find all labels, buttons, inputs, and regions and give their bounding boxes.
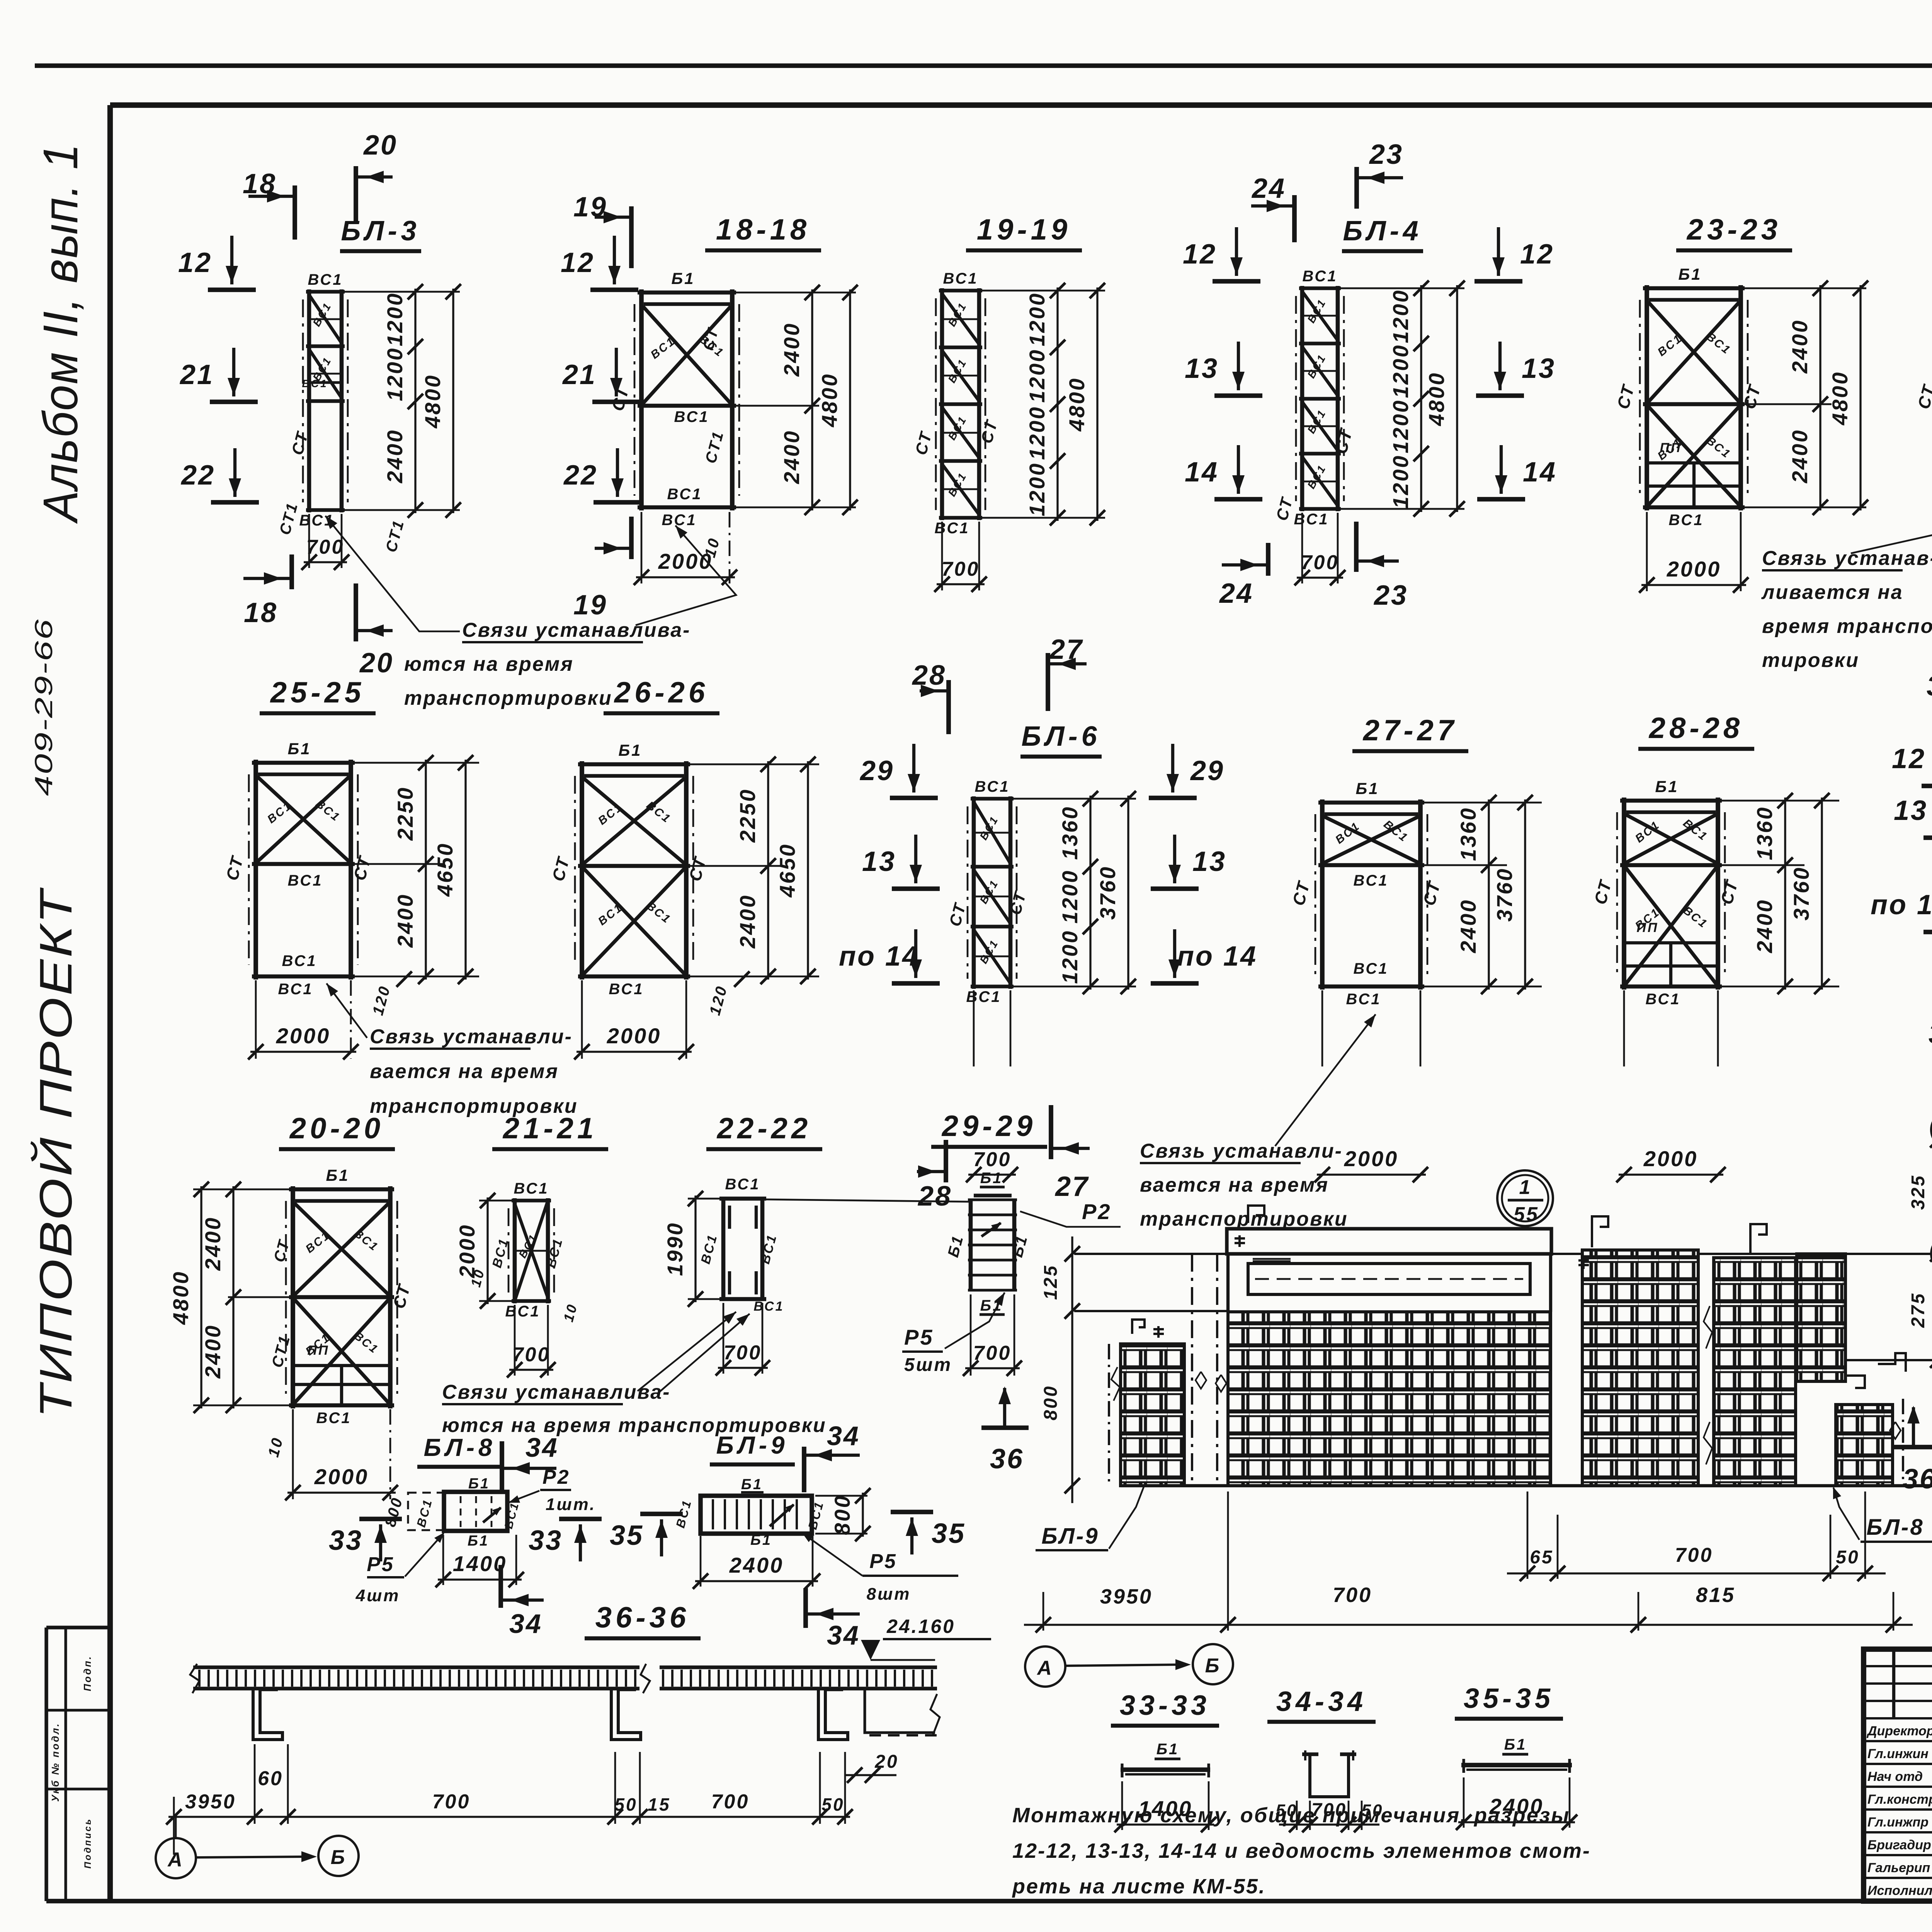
БЛ-8 note Р5 4шт [355, 1532, 444, 1605]
33-33 flange [1121, 1741, 1210, 1777]
БЛ-3 section mark 21 left [179, 348, 258, 402]
svg-text:СТ: СТ [946, 900, 969, 928]
БЛ-8 mark 34 top [502, 1432, 559, 1491]
svg-text:4800: 4800 [817, 373, 842, 428]
svg-text:20: 20 [359, 648, 394, 679]
svg-text:ВС1: ВС1 [1681, 904, 1710, 931]
svg-text:ВС1: ВС1 [414, 1497, 435, 1529]
block БЛ-6 truss column [946, 778, 1030, 1005]
block section 26-26 [549, 741, 710, 998]
svg-text:ВС1: ВС1 [1353, 960, 1388, 977]
svg-text:Связи устанавлива-: Связи устанавлива- [442, 1381, 670, 1403]
block БЛ-4 truss column [1272, 268, 1356, 528]
svg-text:325: 325 [1908, 1174, 1929, 1210]
28-28 bottom dim 2000 [1616, 990, 1726, 1182]
elevation axis А circle [1025, 1646, 1065, 1687]
БЛ-6 mark 29 left [859, 744, 938, 798]
svg-text:800: 800 [1041, 1385, 1061, 1420]
БЛ-4 mark 14 left [1185, 445, 1262, 499]
25-25 dim chains [355, 755, 479, 984]
svg-text:БЛ-6: БЛ-6 [1021, 721, 1100, 752]
svg-text:13: 13 [1522, 353, 1556, 384]
18-18 corner mark 19 bottom [573, 517, 631, 621]
svg-text:13: 13 [1894, 795, 1928, 826]
svg-text:СТ: СТ [223, 854, 247, 883]
19-19 dim chain 4800 [1065, 283, 1105, 526]
svg-text:ВС1: ВС1 [278, 981, 313, 998]
title 34-34 [1267, 1686, 1376, 1722]
elevation right stepped panel [1797, 1254, 1906, 1388]
svg-text:2400: 2400 [201, 1216, 225, 1271]
19-19 bottom dim 700 [934, 522, 987, 592]
БЛ-3 corner mark 18 top [243, 168, 295, 240]
svg-text:1200: 1200 [383, 292, 407, 347]
svg-text:1200: 1200 [1025, 406, 1049, 460]
svg-text:4650: 4650 [775, 843, 799, 898]
svg-text:Бригадир: Бригадир [1867, 1838, 1931, 1852]
svg-text:1990: 1990 [663, 1222, 687, 1276]
БЛ-7 mark 13 left [1894, 784, 1932, 838]
20-20 bottom dim 2000 [265, 1409, 398, 1500]
svg-text:22-22: 22-22 [716, 1112, 811, 1145]
svg-text:2250: 2250 [735, 788, 760, 843]
svg-text:ВС1: ВС1 [934, 520, 969, 537]
svg-text:20: 20 [874, 1752, 898, 1772]
svg-text:28: 28 [917, 1181, 952, 1212]
БЛ-3 section mark 21 right [562, 348, 640, 402]
svg-text:Подпись: Подпись [83, 1818, 93, 1869]
svg-text:СТ: СТ [350, 854, 375, 883]
svg-text:СТ: СТ [1914, 382, 1932, 411]
svg-text:700: 700 [1675, 1544, 1713, 1566]
svg-text:Б1: Б1 [468, 1533, 489, 1549]
27-27 bottom dim 2000 [1315, 990, 1428, 1182]
svg-text:Б1: Б1 [618, 741, 642, 759]
БЛ-7 mark po14 left [1871, 878, 1932, 932]
svg-text:СТ: СТ [1420, 879, 1444, 908]
svg-text:2400: 2400 [779, 430, 804, 485]
block БЛ-3 truss column [276, 271, 408, 554]
svg-text:Б1: Б1 [1355, 779, 1379, 798]
svg-text:50: 50 [821, 1794, 844, 1815]
svg-text:120: 120 [706, 983, 731, 1017]
svg-text:1200: 1200 [1388, 289, 1413, 344]
svg-text:12: 12 [178, 247, 212, 278]
svg-text:125: 125 [1041, 1264, 1061, 1300]
elevation main panel frame [1227, 1229, 1551, 1486]
svg-text:33-33: 33-33 [1120, 1690, 1210, 1721]
svg-text:2400: 2400 [1456, 899, 1480, 954]
svg-text:23: 23 [1373, 580, 1408, 611]
svg-text:реть на листе КМ-55.: реть на листе КМ-55. [1012, 1875, 1266, 1898]
36-36 channel 2 [611, 1689, 641, 1740]
title 18-18 [705, 213, 821, 250]
svg-text:12: 12 [561, 247, 595, 278]
svg-text:18-18: 18-18 [716, 213, 810, 246]
svg-text:СТ: СТ [549, 854, 573, 883]
svg-text:4800: 4800 [168, 1270, 193, 1325]
svg-text:4шт: 4шт [355, 1586, 400, 1605]
35-35 flange [1461, 1736, 1572, 1773]
svg-text:5шт: 5шт [904, 1355, 952, 1375]
БЛ-4 mark 14 right [1477, 445, 1557, 499]
block section 19-19 [912, 270, 1001, 537]
svg-text:22: 22 [180, 460, 215, 491]
block section 23-23 [1614, 265, 1765, 529]
block section 25-25 [223, 740, 375, 998]
note svyazi 21-22 [442, 1312, 827, 1437]
svg-text:транспортировки: транспортировки [1140, 1208, 1348, 1230]
svg-text:ВС1: ВС1 [1346, 991, 1381, 1008]
БЛ-6 corner mark 28 bottom [917, 1140, 952, 1212]
svg-text:21: 21 [562, 359, 597, 390]
18-18 dim chain 2400/2400 [736, 285, 856, 515]
20-20 dim chains left [168, 1182, 289, 1413]
svg-text:36-36: 36-36 [595, 1601, 690, 1634]
34-34 channel profile [1302, 1750, 1356, 1797]
svg-text:31: 31 [1927, 671, 1932, 702]
svg-text:2400: 2400 [201, 1324, 225, 1379]
block section 24-24 [1914, 265, 1932, 529]
БЛ-9 note Р5 8шт [802, 1533, 958, 1604]
svg-text:вается на время: вается на время [1140, 1174, 1329, 1196]
svg-text:35: 35 [932, 1518, 966, 1549]
svg-text:СТ: СТ [608, 384, 633, 413]
elevation dashed column [1192, 1254, 1217, 1486]
svg-text:29: 29 [1190, 755, 1225, 786]
svg-text:1200: 1200 [1025, 349, 1049, 403]
БЛ-3 bottom dim 700 [301, 514, 349, 570]
title 19-19 [966, 213, 1082, 250]
29-29 link line [764, 1199, 969, 1202]
svg-text:36: 36 [1903, 1464, 1932, 1495]
svg-text:4800: 4800 [420, 374, 445, 429]
svg-text:2400: 2400 [729, 1553, 784, 1577]
svg-text:29: 29 [859, 755, 894, 786]
svg-text:700: 700 [724, 1342, 762, 1364]
svg-text:ВС1: ВС1 [514, 1180, 549, 1197]
svg-text:ВС1: ВС1 [674, 408, 709, 425]
БЛ-3 extension lines [345, 292, 460, 510]
БЛ-6 corner mark 27 top [1048, 634, 1087, 711]
29-29 note P5 5sht [902, 1293, 1005, 1375]
svg-text:ливается на: ливается на [1761, 581, 1903, 604]
svg-text:Б1: Б1 [1655, 777, 1679, 796]
svg-text:2250: 2250 [393, 786, 417, 841]
svg-text:18: 18 [243, 168, 277, 199]
svg-text:ВС1: ВС1 [1353, 872, 1388, 889]
block БЛ-8 section 29-29 column [945, 1170, 1031, 1315]
27-27 dim chains [1424, 795, 1542, 994]
svg-text:24: 24 [1219, 578, 1253, 609]
note svyazi ustanavlivayutsya row1 [325, 516, 736, 709]
svg-text:БЛ-9: БЛ-9 [716, 1431, 789, 1459]
svg-text:Б1: Б1 [1678, 265, 1702, 283]
svg-text:65: 65 [1530, 1547, 1553, 1568]
svg-text:ВС1: ВС1 [805, 1499, 826, 1531]
svg-text:31: 31 [1929, 1019, 1932, 1049]
svg-text:1шт.: 1шт. [546, 1495, 596, 1514]
svg-text:3760: 3760 [1095, 866, 1120, 920]
svg-text:Б1: Б1 [326, 1166, 349, 1184]
29-29 note P2 [1020, 1199, 1121, 1227]
svg-text:Связи устанавлива-: Связи устанавлива- [462, 619, 690, 641]
section 36-36 walkway strip [190, 1663, 937, 1693]
18-18 corner mark 19 top [573, 192, 631, 268]
svg-text:35: 35 [610, 1520, 644, 1551]
svg-text:20-20: 20-20 [289, 1112, 384, 1145]
svg-text:700: 700 [1301, 551, 1339, 574]
БЛ-9 mark 35 left [610, 1514, 683, 1556]
svg-text:1200: 1200 [1388, 399, 1413, 454]
svg-text:2000: 2000 [1667, 557, 1721, 581]
svg-text:1200: 1200 [1025, 292, 1049, 347]
svg-text:19: 19 [573, 192, 607, 223]
elevation dim 125 and 800 left [1041, 1236, 1080, 1503]
svg-text:Б: Б [331, 1846, 347, 1869]
БЛ-4 corner mark 23 bottom [1356, 522, 1408, 611]
svg-text:700: 700 [973, 1342, 1012, 1364]
svg-text:23-23: 23-23 [1686, 213, 1781, 246]
svg-text:33: 33 [529, 1525, 563, 1556]
25-25 dim 120 [369, 971, 412, 1017]
svg-text:Подп.: Подп. [82, 1655, 93, 1691]
svg-text:4650: 4650 [433, 842, 457, 897]
svg-text:СТ: СТ [389, 1282, 414, 1311]
БЛ-6 mark po14 right [1151, 929, 1257, 983]
34-34 dims 50 700 50 [1276, 1800, 1384, 1832]
svg-text:ются на время: ются на время [404, 653, 574, 675]
svg-text:ВС1: ВС1 [502, 1500, 522, 1530]
elevation diamond symbol right [1890, 1422, 1901, 1439]
svg-text:СТ1: СТ1 [383, 517, 408, 554]
svg-text:3760: 3760 [1492, 867, 1517, 922]
elevation left small mesh panel [1109, 1344, 1184, 1486]
БЛ-6 corner mark 28 top [912, 660, 949, 734]
svg-text:12: 12 [1183, 239, 1217, 270]
БЛ-9 mark 34 top [804, 1421, 860, 1492]
svg-text:3950: 3950 [185, 1791, 236, 1813]
БЛ-4 ext lines [1341, 288, 1464, 509]
svg-text:700: 700 [1333, 1583, 1372, 1607]
svg-text:ВС1: ВС1 [1704, 330, 1733, 357]
svg-text:Нач отд: Нач отд [1867, 1769, 1923, 1784]
БЛ-6 bottom dim 700 [966, 990, 1018, 1182]
sheet top edge line [35, 63, 1932, 68]
svg-text:4800: 4800 [1828, 371, 1852, 426]
svg-text:ВС1: ВС1 [316, 1410, 351, 1427]
svg-text:ТИПОВОЙ ПРОЕКТ: ТИПОВОЙ ПРОЕКТ [30, 887, 82, 1418]
elevation mark 36 right [1891, 1406, 1932, 1495]
main panel top hooks [1235, 1206, 1291, 1261]
svg-text:35-35: 35-35 [1464, 1683, 1554, 1714]
svg-text:ВС1: ВС1 [644, 799, 673, 826]
svg-text:700: 700 [306, 536, 345, 558]
svg-text:21: 21 [179, 359, 214, 390]
svg-text:Укб № подл.: Укб № подл. [49, 1722, 61, 1802]
19-19 dim chain 1200x4 [1025, 283, 1065, 526]
svg-text:СТ: СТ [1289, 879, 1314, 908]
svg-text:Б1: Б1 [980, 1170, 1003, 1187]
БЛ-3 section mark 12 left [178, 236, 256, 290]
block section 18-18 [608, 269, 739, 529]
БЛ-4 mark 13 right [1476, 342, 1556, 396]
svg-text:3760: 3760 [1789, 866, 1813, 921]
svg-text:СТ1: СТ1 [269, 1333, 294, 1369]
svg-text:700: 700 [432, 1791, 471, 1813]
svg-text:ВС1: ВС1 [725, 1176, 760, 1193]
svg-text:28-28: 28-28 [1648, 712, 1743, 745]
БЛ-6 mark 13 right [1151, 835, 1226, 889]
БЛ-3 corner mark 18 bottom [243, 554, 292, 628]
svg-text:А: А [167, 1849, 184, 1871]
svg-text:120: 120 [369, 983, 394, 1017]
svg-text:1360: 1360 [1456, 807, 1480, 861]
svg-text:Гл.констр: Гл.констр [1867, 1792, 1932, 1807]
svg-text:ВС1: ВС1 [303, 1229, 333, 1256]
svg-text:БЛ-3: БЛ-3 [341, 216, 420, 247]
svg-text:ВС1: ВС1 [265, 799, 294, 826]
svg-text:БЛ-4: БЛ-4 [1343, 216, 1422, 247]
svg-text:800: 800 [382, 1495, 406, 1529]
svg-text:ВС1: ВС1 [753, 1299, 784, 1314]
svg-text:700: 700 [942, 558, 980, 580]
svg-text:12: 12 [1520, 239, 1554, 270]
svg-text:ВС1: ВС1 [287, 872, 323, 889]
svg-text:1200: 1200 [1025, 462, 1049, 517]
svg-text:СТ: СТ [1330, 425, 1357, 456]
elevation dims 3950 700 815 [1024, 1492, 1913, 1633]
elevation mid reference line [1074, 1310, 1229, 1312]
svg-text:ВС1: ВС1 [644, 900, 673, 927]
svg-text:1200: 1200 [383, 347, 407, 401]
svg-text:10: 10 [560, 1301, 580, 1323]
svg-text:700: 700 [973, 1148, 1012, 1171]
svg-text:12-12, 13-13, 14-14 и ведомост: 12-12, 13-13, 14-14 и ведомость элементо… [1012, 1839, 1591, 1862]
svg-text:19-19: 19-19 [977, 213, 1071, 246]
БЛ-4 dim chain 1200x4 [1388, 281, 1429, 517]
БЛ-7 corner mark 31 top [1927, 671, 1932, 744]
svg-text:СТ: СТ [1272, 495, 1296, 522]
БЛ-6 corner mark 27 bottom [1051, 1105, 1090, 1202]
svg-text:1360: 1360 [1752, 806, 1777, 861]
svg-text:2000: 2000 [1344, 1146, 1399, 1171]
БЛ-6 mark 13 left [862, 835, 940, 889]
block БЛ-8 beam [382, 1476, 522, 1549]
БЛ-9 bottom dim 2400 [693, 1536, 820, 1589]
svg-text:Альбом II, вып. 1: Альбом II, вып. 1 [33, 143, 88, 524]
elevation scale circle 1:55 [1497, 1170, 1553, 1226]
svg-text:СТ: СТ [1717, 878, 1742, 906]
left panel top hook [1132, 1320, 1164, 1338]
svg-text:12: 12 [1892, 743, 1926, 774]
title БЛ-4 [1342, 216, 1423, 251]
БЛ-3 corner mark 20 bottom [356, 583, 394, 679]
svg-text:Б1: Б1 [750, 1532, 772, 1548]
svg-text:Б1: Б1 [468, 1476, 490, 1492]
axis circle 3 [1931, 1111, 1932, 1235]
26-26 dim 120 [706, 971, 750, 1017]
svg-text:50: 50 [1836, 1547, 1859, 1568]
23-23 dim chains [1745, 281, 1868, 515]
svg-text:Б1: Б1 [945, 1233, 967, 1259]
36-36 axis arrow А to Б [196, 1851, 317, 1862]
svg-text:1200: 1200 [1388, 344, 1413, 398]
svg-text:1200: 1200 [1058, 869, 1082, 924]
svg-text:2400: 2400 [735, 894, 760, 949]
svg-text:2000: 2000 [607, 1024, 662, 1048]
36-36 right angle piece [865, 1689, 940, 1735]
svg-text:СТ: СТ [1614, 382, 1638, 411]
svg-text:ВС1: ВС1 [352, 1330, 381, 1357]
svg-text:БЛ-8: БЛ-8 [424, 1434, 496, 1461]
svg-text:ПП: ПП [308, 1343, 330, 1358]
svg-text:2400: 2400 [393, 893, 417, 948]
svg-text:2400: 2400 [1752, 899, 1777, 954]
БЛ-4 corner mark 23 top [1357, 139, 1403, 209]
svg-text:ВС1: ВС1 [352, 1227, 381, 1254]
svg-text:2000: 2000 [1643, 1146, 1698, 1171]
svg-text:ВС1: ВС1 [282, 952, 317, 969]
middle panel top hook [1578, 1216, 1608, 1269]
БЛ-4 corner mark 24 bottom [1219, 543, 1268, 609]
title 27-27 [1352, 714, 1468, 751]
left margin text 409-29-66 [30, 618, 58, 796]
note montazhnaya skhema [1012, 1804, 1591, 1898]
svg-text:34: 34 [526, 1432, 559, 1463]
svg-text:14: 14 [1523, 457, 1557, 488]
svg-text:60: 60 [258, 1767, 283, 1790]
svg-text:36: 36 [990, 1444, 1024, 1475]
svg-text:А: А [1036, 1657, 1053, 1679]
БЛ-3 section mark 22 left [180, 448, 259, 502]
svg-text:ВС1: ВС1 [1294, 511, 1329, 528]
svg-text:Р5: Р5 [367, 1553, 395, 1576]
elevation label БЛ-9 [1036, 1487, 1144, 1550]
БЛ-3 corner mark 20 top [356, 130, 398, 224]
svg-text:Б: Б [1205, 1655, 1221, 1677]
svg-text:ВС1: ВС1 [505, 1303, 540, 1320]
svg-text:409-29-66: 409-29-66 [30, 618, 58, 796]
svg-text:Б1: Б1 [287, 740, 311, 758]
note svyaz 27-27 [1140, 1014, 1376, 1230]
23-23 bottom dim 2000 [1639, 512, 1748, 593]
svg-text:ВС1: ВС1 [667, 486, 702, 503]
title 33-33 [1111, 1690, 1219, 1726]
БЛ-4 corner mark 24 top [1251, 173, 1294, 242]
svg-text:ВС1: ВС1 [308, 271, 343, 288]
svg-text:по 14: по 14 [1177, 941, 1257, 972]
elevation dims 65 700 50 [1507, 1492, 1886, 1581]
svg-text:10: 10 [265, 1435, 286, 1459]
elevation diamond symbol left [1216, 1375, 1226, 1392]
26-26 dim chains [690, 757, 819, 984]
svg-text:Исполнил: Исполнил [1867, 1883, 1932, 1898]
36-36 axis А circle [156, 1817, 196, 1878]
svg-text:ВС1: ВС1 [1302, 268, 1337, 285]
svg-text:СТ: СТ [1740, 382, 1765, 411]
elevation label БЛ-8 [1833, 1487, 1932, 1542]
svg-text:Р5: Р5 [904, 1325, 934, 1349]
left margin text TIPOVOY PROEKT [30, 887, 82, 1418]
36-36 channel 3 [818, 1689, 848, 1740]
elevation right mesh panel [1704, 1258, 1796, 1486]
22-22 bottom dim 700 [716, 1303, 770, 1376]
title 36-36 [585, 1601, 701, 1638]
svg-text:1360: 1360 [1058, 806, 1082, 860]
svg-text:21-21: 21-21 [502, 1112, 597, 1145]
svg-text:по 14: по 14 [839, 941, 919, 972]
